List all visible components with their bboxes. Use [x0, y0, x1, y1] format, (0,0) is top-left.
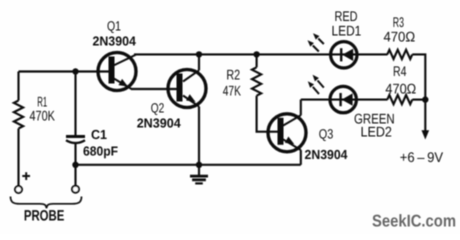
svg-text:2N3904: 2N3904 [137, 115, 182, 130]
svg-text:470K: 470K [30, 108, 56, 124]
svg-text:Q3: Q3 [319, 127, 334, 142]
svg-text:R2: R2 [226, 66, 240, 82]
svg-text:Q1: Q1 [107, 18, 121, 33]
svg-text:2N3904: 2N3904 [92, 33, 136, 48]
svg-text:SeekIC.com: SeekIC.com [372, 212, 456, 231]
svg-text:2N3904: 2N3904 [305, 147, 349, 162]
svg-text:R3: R3 [393, 14, 404, 30]
svg-text:LED2: LED2 [360, 124, 392, 140]
svg-text:C1: C1 [91, 127, 107, 142]
svg-text:680pF: 680pF [83, 144, 118, 159]
svg-text:470Ω: 470Ω [385, 81, 416, 97]
svg-text:470Ω: 470Ω [383, 29, 415, 45]
svg-text:PROBE: PROBE [24, 207, 65, 224]
svg-text:Q2: Q2 [151, 101, 165, 116]
svg-text:+6 – 9V: +6 – 9V [400, 149, 444, 165]
svg-text:47K: 47K [223, 82, 242, 98]
svg-text:R4: R4 [393, 63, 407, 79]
svg-text:LED1: LED1 [332, 23, 362, 39]
